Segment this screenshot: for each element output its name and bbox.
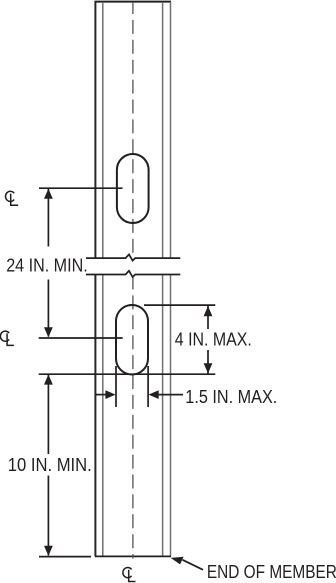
arrowhead left (1.5 IN. MAX. right) [149,390,159,399]
member outer right flange line (upper span) [170,2,172,258]
member inner right flange line (upper span) [162,2,164,258]
member bottom edge (end of member) [95,555,171,557]
extension line at slot1 centerline [39,187,123,189]
svg-text:END OF MEMBER: END OF MEMBER [207,562,336,582]
end-of-member leader arrowhead [171,557,184,565]
arrowhead right (1.5 IN. MAX. left) [105,390,115,399]
member top edge [95,1,171,3]
member outer left flange line (upper span) [94,1,96,258]
extension line at member end (left) [39,556,91,558]
dimension line 4 IN. MAX. [207,306,209,374]
1.5 IN. MAX. right arrow tail [152,394,183,396]
member inner left flange line (upper span) [102,2,104,258]
svg-text:10 IN. MIN.: 10 IN. MIN. [8,455,92,475]
extension line at slot2 bottom (shared) [39,373,216,375]
dashed vertical centerline (upper) [132,2,134,253]
arrowhead up (4 IN. MAX. top) [204,306,213,316]
dashed vertical centerline (lower) [132,278,134,559]
1.5 IN. MAX. left arrow tail [96,394,112,396]
extension line at slot2 centerline [39,337,123,339]
extension line below slot2 left edge [115,366,117,407]
break line lower with zigzag [86,271,180,277]
arrowhead up (24 IN. MIN. top) [44,189,53,199]
end-of-member leader line [183,560,204,570]
svg-text:4 IN. MAX.: 4 IN. MAX. [175,330,252,350]
dimension line 24 IN. MIN. [47,189,49,337]
dimension line 10 IN. MIN. [47,375,49,556]
extension line at slot2 top [144,304,215,306]
centerline symbol CL (lower left) [0,331,14,345]
slot hole 1 (upper slotted hole) [117,154,149,223]
member outer left flange line (lower span) [94,275,96,557]
centerline symbol CL (bottom) [123,567,136,581]
member inner left flange line (lower span) [102,275,104,557]
member outer right flange line (lower span) [170,275,172,557]
white halo behind 10 IN. MIN. text [4,454,93,476]
member inner right flange line (lower span) [162,275,164,557]
svg-text:1.5 IN. MAX.: 1.5 IN. MAX. [185,387,277,407]
arrowhead down (10 IN. MIN. bottom) [44,546,53,556]
extension line below slot2 right edge [147,366,149,407]
slot hole 2 (lower slotted hole) [116,305,148,375]
centerline symbol CL (upper left) [5,191,18,205]
arrowhead down (4 IN. MAX. bottom) [204,363,213,373]
arrowhead down (24 IN. MIN. bottom) [44,327,53,337]
arrowhead up (10 IN. MIN. top) [44,374,53,384]
white halo behind 4 IN. MAX. text [172,329,254,350]
white halo behind 24 IN. MIN. text [2,247,86,280]
break line upper with zigzag [86,254,180,260]
svg-text:24 IN. MIN.: 24 IN. MIN. [6,255,88,275]
